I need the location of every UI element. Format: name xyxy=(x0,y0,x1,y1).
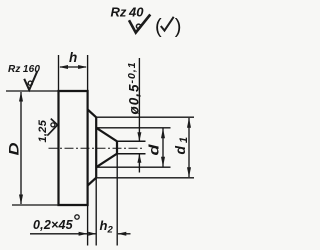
svg-text:0,2×45: 0,2×45 xyxy=(33,218,74,232)
svg-text:d: d xyxy=(147,144,162,156)
svg-text:1,25: 1,25 xyxy=(37,119,49,142)
svg-text:Rz 40: Rz 40 xyxy=(111,5,145,20)
svg-text:Rz 160: Rz 160 xyxy=(8,64,40,75)
svg-text:D: D xyxy=(7,142,22,155)
svg-text:): ) xyxy=(175,16,182,38)
svg-text:h: h xyxy=(69,50,77,65)
svg-text:(: ( xyxy=(155,16,162,38)
